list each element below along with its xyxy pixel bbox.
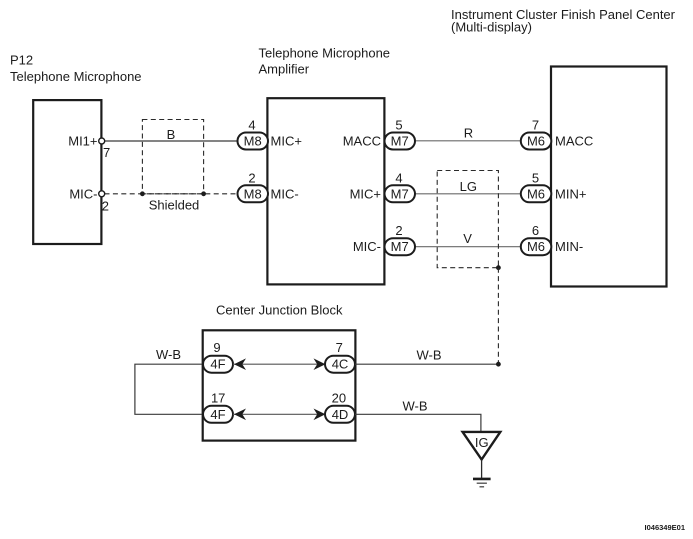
connector M8 pin 2 [238,170,269,202]
ground [473,460,491,487]
svg-text:IG: IG [475,435,489,450]
svg-text:M7: M7 [391,134,409,149]
svg-text:M8: M8 [244,134,262,149]
svg-text:6: 6 [532,223,539,238]
wire W-B left loop [135,364,203,414]
junction dot W-B row1 [496,362,501,367]
connector M7 pin 5 [385,118,416,150]
svg-text:B: B [167,127,176,142]
component P12 telephone microphone box [33,100,101,244]
power symbol IG triangle [463,432,501,460]
svg-text:7: 7 [336,340,343,355]
svg-text:4: 4 [395,170,402,185]
connector M6 pin 5 [521,170,552,202]
arrow into 4F row1 [234,358,246,370]
label: Telephone Microphone Amplifier [259,46,391,77]
svg-text:M6: M6 [527,134,545,149]
component telephone microphone amplifier box [267,98,384,284]
connector M6 pin 6 [521,223,552,255]
connector 4F pin 9 [203,340,233,373]
wire R: MACC to MACC [415,140,521,142]
svg-text:(Multi-display): (Multi-display) [451,20,532,35]
svg-text:MIC+: MIC+ [271,134,302,149]
svg-text:W-B: W-B [402,399,427,414]
svg-text:17: 17 [211,390,225,405]
arrow into 4F row2 [234,409,246,421]
svg-text:4F: 4F [210,357,225,372]
svg-text:2: 2 [248,170,255,185]
svg-text:4: 4 [248,118,255,133]
svg-text:MIC-: MIC- [353,239,381,254]
svg-text:4D: 4D [332,407,349,422]
component center junction block box [203,330,356,440]
component instrument cluster finish panel center box [551,67,667,287]
connector M6 pin 7 [521,118,552,150]
svg-text:P12: P12 [10,53,33,68]
svg-text:MI1+: MI1+ [68,134,97,149]
shield dashed box [142,120,203,194]
svg-text:R: R [464,126,473,141]
svg-text:M8: M8 [244,186,262,201]
svg-text:M6: M6 [527,186,545,201]
svg-text:4C: 4C [332,357,349,372]
shield dashed box LG/V [437,171,498,268]
svg-text:M6: M6 [527,239,545,254]
svg-text:M7: M7 [391,239,409,254]
connector 4C pin 7 [325,340,355,373]
connector M8 pin 4 [238,118,269,150]
svg-text:Amplifier: Amplifier [259,61,310,76]
svg-text:5: 5 [395,118,402,133]
connector 4F pin 17 [203,390,233,423]
svg-text:5: 5 [532,170,539,185]
wire V: MIC- to MIN- [415,246,520,248]
wire LG: MIC+ to MIN+ [415,193,521,195]
svg-text:MACC: MACC [343,134,381,149]
wire W-B row2 to IG [355,414,481,431]
connector M7 pin 2 [385,223,416,255]
junction dot shield right [201,191,206,196]
wire B: MI1+ to MIC+ (solid) [105,140,238,142]
svg-text:MACC: MACC [555,134,593,149]
wire dashed vertical from shield to W-B [497,268,499,365]
svg-text:2: 2 [102,198,109,213]
connector 4D pin 20 [325,390,355,423]
svg-text:W-B: W-B [156,347,181,362]
svg-text:Telephone Microphone: Telephone Microphone [259,46,391,61]
connector M7 pin 4 [385,170,416,202]
wire W-B right row1 [355,363,498,365]
svg-text:20: 20 [332,390,346,405]
wire shielded: MIC- to MIC- (dashed) [105,193,238,195]
arrow into 4C row1 [314,358,326,370]
label: Instrument Cluster Finish Panel Center (Multi-display) [451,7,676,35]
arrow into 4D row2 [314,409,326,421]
svg-text:LG: LG [460,179,477,194]
svg-text:M7: M7 [391,186,409,201]
svg-text:Center Junction Block: Center Junction Block [216,303,343,318]
svg-text:7: 7 [532,118,539,133]
svg-text:MIN-: MIN- [555,239,583,254]
wire internal row2 [233,413,325,415]
svg-text:MIC-: MIC- [69,186,97,201]
wire internal row1 [233,363,325,365]
svg-text:2: 2 [395,223,402,238]
svg-text:MIC+: MIC+ [350,186,381,201]
svg-text:9: 9 [213,340,220,355]
svg-text:MIN+: MIN+ [555,186,586,201]
svg-text:W-B: W-B [416,348,441,363]
svg-text:7: 7 [103,145,110,160]
node MI1+ pin circle [99,138,105,144]
junction dot shield bottom right [496,265,501,270]
svg-text:MIC-: MIC- [271,186,299,201]
svg-text:4F: 4F [210,407,225,422]
label: P12 Telephone Microphone [10,53,142,84]
junction dot shield left [140,191,145,196]
svg-text:V: V [463,231,472,246]
svg-text:I046349E01: I046349E01 [645,523,685,532]
svg-text:Telephone Microphone: Telephone Microphone [10,69,142,84]
svg-text:Shielded: Shielded [149,198,200,213]
node MIC- pin circle [99,191,105,197]
